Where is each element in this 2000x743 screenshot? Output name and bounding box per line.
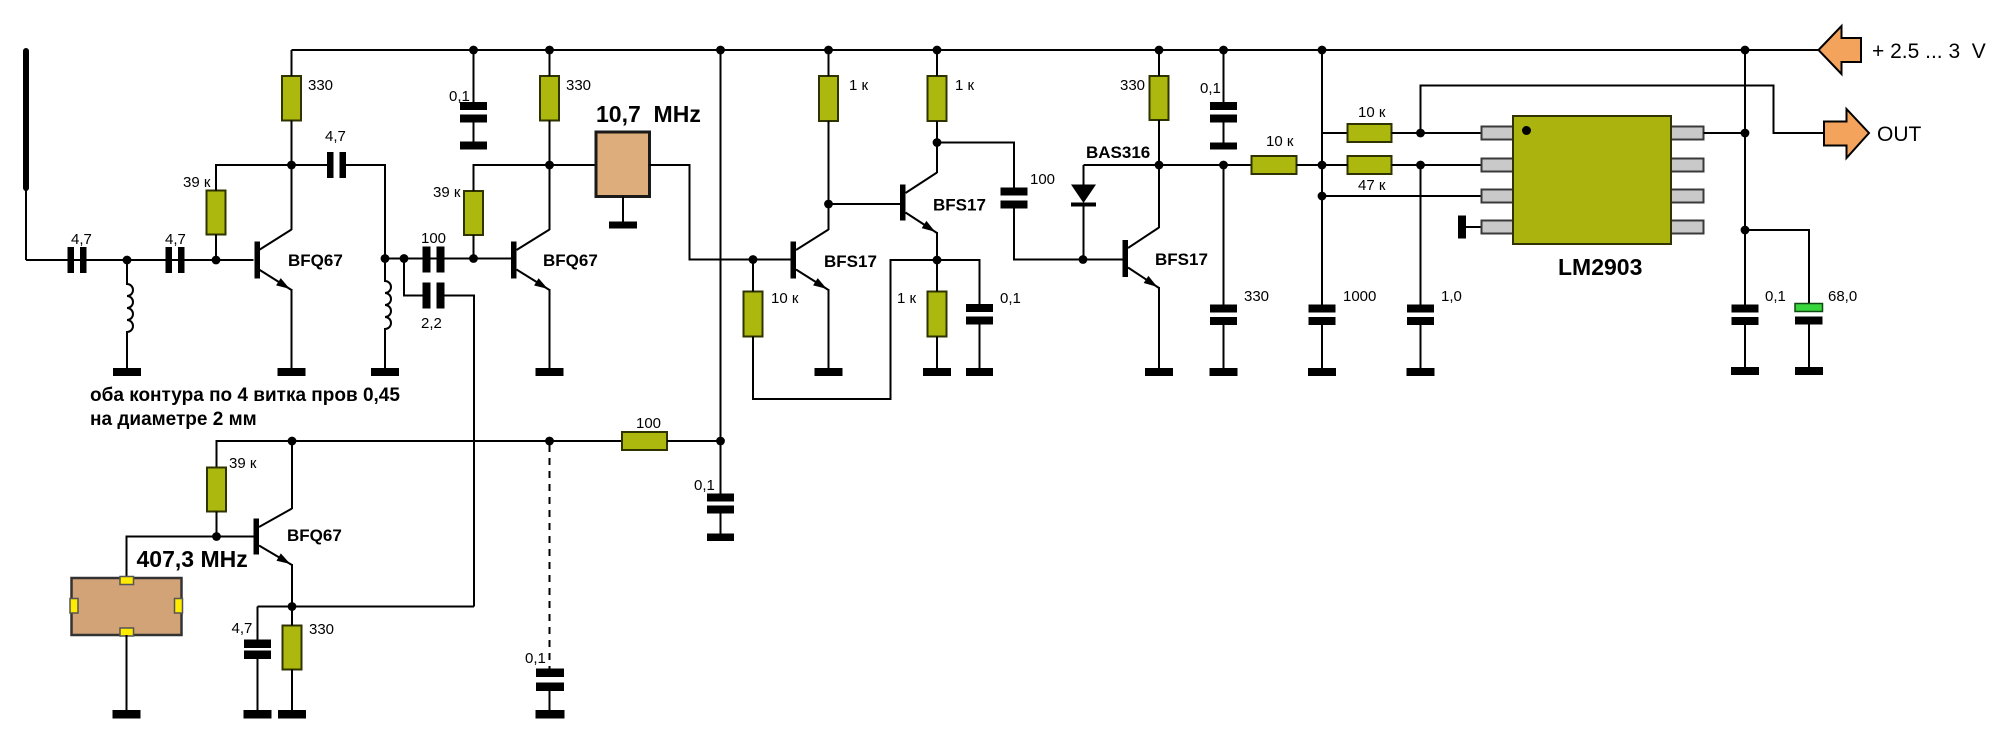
capacitor C11 330	[1210, 305, 1237, 369]
capacitor C4 100	[423, 247, 445, 273]
node rail R9	[1155, 46, 1164, 55]
wire branch down to C5	[404, 259, 423, 296]
ground under C7	[707, 534, 734, 542]
capacitor C2 4,7	[166, 247, 185, 273]
wire Q1 emitter down to ground	[291, 289, 293, 368]
svg-text:1000: 1000	[1343, 288, 1376, 305]
wire Q2 emitter to ground	[549, 289, 551, 368]
wire R4 to Q2 collector node	[549, 121, 551, 166]
capacitor C5 2,2	[423, 283, 445, 309]
capacitor C6 0,1	[460, 50, 487, 142]
svg-text:4,7: 4,7	[325, 128, 346, 145]
svg-text:1 к: 1 к	[955, 77, 975, 94]
node dashed branch	[545, 437, 554, 446]
capacitor C8 0,1	[966, 304, 993, 368]
ground under Q3 emitter	[815, 368, 843, 376]
resistor R14 100	[622, 432, 667, 450]
wire 47k left lead	[1322, 164, 1348, 166]
wire R8 to ground	[936, 337, 938, 369]
wire dashed AC ground branch	[549, 445, 551, 669]
svg-text:100: 100	[1030, 171, 1055, 188]
ground under X1	[609, 222, 637, 229]
node 68uF branch	[1741, 226, 1750, 235]
wire stub to R10	[1322, 132, 1348, 134]
wire R7 to Q4 collector node	[936, 121, 938, 143]
ground under C15	[1795, 367, 1823, 375]
wire node to C8	[937, 260, 980, 304]
svg-text:1 к: 1 к	[849, 77, 869, 94]
wire node down to C11	[1223, 165, 1225, 305]
wire rail down via 10k stub to C12	[1321, 50, 1323, 305]
ground under C12	[1308, 368, 1336, 376]
capacitor C9 100	[1001, 188, 1028, 209]
node diode bottom	[1079, 255, 1088, 264]
ground under R13	[278, 710, 306, 719]
svg-text:0,1: 0,1	[1000, 290, 1021, 307]
wire Q1 collector up to node	[291, 165, 293, 230]
wire Q4 collector node to C9	[937, 143, 1014, 188]
ground under C11	[1210, 368, 1238, 376]
pin 4 tie mark	[1458, 216, 1466, 239]
node C11 top	[1219, 161, 1228, 170]
wire pin5 to right vertical	[1704, 132, 1746, 134]
svg-text:BFS17: BFS17	[1155, 250, 1208, 269]
wire rail down to C7	[720, 50, 722, 494]
wire C3 to stage2 tank	[346, 165, 385, 259]
capacitor C12 1000	[1309, 305, 1336, 369]
wire X2 bottom to ground	[126, 635, 128, 710]
node rail C6	[469, 46, 478, 55]
node C7 top	[716, 437, 725, 446]
wire Q2 collector up	[549, 165, 551, 230]
node rail right vertical	[1741, 46, 1750, 55]
svg-text:330: 330	[308, 77, 333, 94]
wire rail to R7	[936, 50, 938, 76]
transistor Q2 BFQ67	[511, 230, 550, 291]
resistor R8 1k	[928, 292, 947, 337]
svg-text:на диаметре 2 мм: на диаметре 2 мм	[90, 409, 257, 430]
wire emitter line	[258, 606, 475, 608]
node pin5 junction	[1741, 129, 1750, 138]
node Q4 collector	[933, 138, 942, 147]
wire X1 to Q3 base	[650, 165, 791, 260]
resistor R12 39k	[207, 468, 226, 512]
svg-text:39 к: 39 к	[183, 174, 211, 191]
svg-text:+ 2.5 ... 3 V: + 2.5 ... 3 V	[1872, 40, 1986, 63]
resistor R5 1k	[819, 76, 838, 121]
svg-text:10 к: 10 к	[1358, 104, 1386, 121]
ground under C6	[460, 142, 487, 150]
wire pin3 line	[1322, 195, 1482, 197]
svg-text:4,7: 4,7	[165, 231, 186, 248]
svg-text:BFQ67: BFQ67	[543, 251, 598, 270]
wire node to pin1	[1421, 132, 1482, 134]
svg-text:BFS17: BFS17	[824, 252, 877, 271]
node rail C7	[716, 46, 725, 55]
ground under R8	[923, 368, 951, 376]
capacitor C13 1,0	[1407, 305, 1434, 369]
wire Q3 collector up	[828, 204, 830, 230]
node osc collector line	[288, 437, 297, 446]
capacitor C10 0,1	[1210, 50, 1237, 143]
wire Q6 emitter down	[291, 564, 293, 607]
svg-text:47 к: 47 к	[1358, 177, 1386, 194]
wire antenna lead down	[25, 188, 27, 260]
svg-text:68,0: 68,0	[1828, 288, 1857, 305]
wire Q6 base line	[127, 537, 254, 579]
svg-text:100: 100	[421, 230, 446, 247]
wire node to crystal X1	[550, 164, 597, 166]
wire 47k right lead	[1392, 164, 1421, 166]
antenna	[23, 48, 29, 191]
capacitor C17 0,1	[536, 669, 564, 711]
node rail R4	[545, 46, 554, 55]
transistor Q5 BFS17	[1123, 228, 1160, 289]
wire R3 top to 330 node	[474, 165, 550, 191]
wire top power rail	[292, 49, 1819, 51]
svg-text:1,0: 1,0	[1441, 288, 1462, 305]
wire Q5 emitter to ground	[1158, 287, 1160, 368]
wire node to pin2	[1421, 164, 1482, 166]
resistor R3 39k	[464, 191, 483, 235]
node Q5 collector	[1155, 161, 1164, 170]
node Q2 collector	[545, 161, 554, 170]
wire R5 to Q3 collector node	[828, 121, 830, 204]
wire rail to R2	[291, 50, 293, 76]
svg-text:2,2: 2,2	[421, 315, 442, 332]
wire node down to C13	[1420, 165, 1422, 305]
node Q3 collector / Q4 base	[824, 200, 833, 209]
ground under Q1 emitter	[278, 368, 306, 376]
wire node to R8	[936, 260, 938, 292]
wire R1 top to collector node	[216, 165, 292, 191]
svg-text:0,1: 0,1	[1200, 80, 1221, 97]
inductor L2	[385, 259, 391, 369]
wire stage2 base line	[385, 258, 511, 260]
svg-text:4,7: 4,7	[232, 620, 253, 637]
node 47k left	[1318, 161, 1327, 170]
resistor R9 330	[1150, 76, 1169, 120]
resistor R7 1k	[928, 76, 947, 121]
wire rail to R4	[549, 50, 551, 76]
wire C5 to feedback line	[445, 296, 475, 607]
svg-text:330: 330	[1244, 288, 1269, 305]
resistor R10 10k	[1348, 124, 1392, 142]
wire node to Q4 base	[829, 203, 901, 205]
ground under C16	[244, 710, 272, 719]
wire oscillator output line	[217, 441, 623, 468]
ground under X2	[113, 710, 141, 719]
node stage2 tank top	[381, 254, 390, 263]
ground under C13	[1407, 368, 1435, 376]
wire node to R13	[291, 607, 293, 626]
wire C9 to diode node	[1014, 209, 1123, 260]
node Q3 base	[749, 255, 758, 264]
svg-text:39 к: 39 к	[229, 455, 257, 472]
wire rail to R5	[828, 50, 830, 76]
wire node to C3	[292, 164, 328, 166]
node Q6 base bias	[212, 532, 221, 541]
node rail R5	[824, 46, 833, 55]
node antenna/L1 junction	[123, 256, 132, 265]
svg-text:0,1: 0,1	[449, 88, 470, 105]
node pin3 branch	[1318, 192, 1327, 201]
ground under C10	[1210, 143, 1237, 150]
svg-text:407,3 MHz: 407,3 MHz	[137, 546, 248, 572]
resistor R6 10k	[744, 292, 763, 337]
capacitor C3 4,7 coupling	[327, 152, 346, 178]
resistor R1 39k	[207, 191, 226, 235]
capacitor C14 0,1	[1732, 305, 1759, 368]
out arrow	[1824, 109, 1869, 158]
node Q1 collector	[287, 161, 296, 170]
wire right vertical	[1744, 50, 1746, 305]
wire R2 to collector node	[291, 121, 293, 166]
svg-text:330: 330	[566, 77, 591, 94]
wire Q3 base node to R6	[752, 260, 754, 292]
wire Q4 emitter down	[936, 232, 938, 260]
ground under L2	[371, 368, 399, 376]
wire Q5 collector up	[1158, 165, 1160, 228]
svg-text:1 к: 1 к	[897, 290, 917, 307]
node rail C10	[1219, 46, 1228, 55]
power arrow +2.5...3V	[1819, 26, 1862, 74]
wire R13 to ground	[291, 670, 293, 711]
svg-text:330: 330	[1120, 77, 1145, 94]
capacitor C7 0,1	[707, 494, 734, 534]
wire R14 right lead	[667, 440, 721, 442]
wire R6 bottom loop to Q4 emitter node	[753, 260, 937, 399]
svg-text:10 к: 10 к	[1266, 133, 1294, 150]
resistor R15 10k	[1252, 156, 1297, 174]
wire R10 to node	[1392, 132, 1421, 134]
svg-text:BFS17: BFS17	[933, 196, 986, 215]
node R10 right	[1416, 129, 1425, 138]
svg-text:10,7 MHz: 10,7 MHz	[596, 101, 701, 127]
ground under Q2 emitter	[536, 368, 564, 376]
wire R12 bottom to base node	[216, 512, 218, 537]
wire D1 top to comparator input line	[1084, 164, 1252, 166]
op-amp U1 LM2903	[1482, 116, 1704, 244]
svg-text:0,1: 0,1	[1765, 288, 1786, 305]
transistor Q6 BFQ67	[254, 509, 293, 566]
svg-text:оба контура по 4 витка пров 0,: оба контура по 4 витка пров 0,45	[90, 385, 400, 406]
ground under C17	[536, 710, 565, 719]
diode D1 BAS316	[1071, 165, 1096, 260]
transistor Q4 BFS17	[900, 173, 937, 234]
svg-text:BFQ67: BFQ67	[288, 251, 343, 270]
node Q4 emitter	[933, 256, 942, 265]
wire R15 to node	[1297, 164, 1323, 166]
svg-text:330: 330	[309, 621, 334, 638]
wire Q6 collector up	[291, 441, 293, 509]
crystal X2 407,3 MHz	[70, 577, 183, 637]
wire OUT feedback line	[1421, 86, 1825, 134]
svg-text:10 к: 10 к	[771, 290, 799, 307]
resistor R13 330	[283, 626, 302, 670]
svg-text:LM2903: LM2903	[1558, 254, 1642, 280]
node R1/Q1 base junction	[212, 256, 221, 265]
svg-text:0,1: 0,1	[694, 477, 715, 494]
ground under C14	[1731, 367, 1759, 375]
node R3 bottom	[469, 254, 478, 263]
node 2,2 branch	[400, 254, 409, 263]
wire X1 ground lead	[622, 197, 624, 222]
node rail v1322	[1318, 46, 1327, 55]
svg-text:0,1: 0,1	[525, 650, 546, 667]
node rail R7	[933, 46, 942, 55]
transistor Q3 BFS17	[791, 230, 829, 291]
wire R3 bottom to base line	[473, 235, 475, 259]
svg-text:39 к: 39 к	[433, 184, 461, 201]
node R11 right	[1416, 161, 1425, 170]
svg-text:4,7: 4,7	[71, 231, 92, 248]
node Q6 emitter	[288, 602, 297, 611]
wire branch to C15	[1745, 230, 1809, 304]
wire pin4	[1466, 226, 1482, 228]
wire Q4 collector up	[936, 143, 938, 174]
capacitor C16 4,7	[244, 607, 271, 711]
wire R9 to node	[1158, 120, 1160, 165]
wire Q3 emitter to ground	[828, 289, 830, 368]
ground under C8	[966, 368, 993, 376]
wire input line to Q1 base	[26, 259, 254, 261]
transistor Q1 BFQ67	[255, 230, 292, 291]
resistor R2 330	[282, 76, 301, 121]
svg-text:BAS316: BAS316	[1086, 143, 1150, 162]
wire R1 bottom to base line	[215, 235, 217, 261]
svg-text:100: 100	[636, 415, 661, 432]
capacitor C15 68,0 electrolytic	[1795, 304, 1823, 368]
svg-text:BFQ67: BFQ67	[287, 526, 342, 545]
crystal X1 10,7 MHz	[596, 132, 650, 197]
wire rail to R9	[1158, 50, 1160, 76]
svg-text:OUT: OUT	[1877, 123, 1922, 146]
resistor R4 330	[540, 76, 559, 121]
ground under L1	[113, 368, 141, 376]
capacitor C1 4,7	[68, 247, 87, 273]
resistor R11 47k	[1348, 156, 1392, 174]
ground under Q5 emitter	[1145, 368, 1173, 376]
inductor L1	[127, 260, 133, 368]
